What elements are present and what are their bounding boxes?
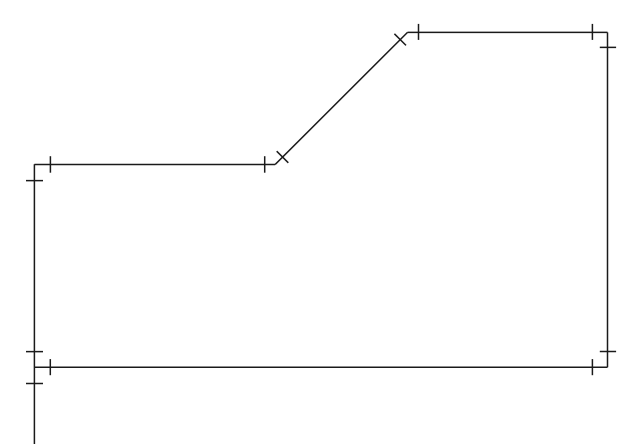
- tick mark T2 on edge A-B near B: [264, 156, 266, 173]
- tick mark T12 on left edge above F: [26, 351, 43, 353]
- wire segment A-B (top-left horizontal edge, y=164.3): [34, 163, 275, 165]
- wire segment E-F (bottom horizontal edge, y=367.3): [34, 366, 607, 368]
- wire segment C-D (top horizontal edge, y=32.35): [408, 31, 608, 33]
- tick mark T5 on edge C-D near C: [418, 24, 420, 40]
- wire segment D-E (right vertical edge, x=607.5): [607, 32, 609, 367]
- tick mark T3 perpendicular to diagonal B-C near B (forms X): [277, 151, 289, 163]
- tick mark T9 on edge E-F near E: [591, 359, 593, 375]
- tick mark T1 on edge A-B near A: [49, 156, 51, 173]
- tick mark T11 on left edge near A: [26, 180, 43, 182]
- tick mark T7 on edge D-E near D: [600, 46, 616, 48]
- wire segment A-G (left vertical edge, x=34.4, overshooting past F to canvas bottom): [33, 164, 35, 444]
- tick mark T10 on edge E-F near F: [49, 359, 51, 375]
- wire segment B-C (45-degree diagonal edge): [275, 32, 407, 164]
- tick mark T4 perpendicular to diagonal B-C near C (forms X): [394, 34, 406, 46]
- tick mark T6 on edge C-D near D: [591, 24, 593, 40]
- tick mark T13 on left edge below F: [26, 383, 43, 385]
- tick mark T8 on edge D-E near E: [600, 351, 616, 353]
